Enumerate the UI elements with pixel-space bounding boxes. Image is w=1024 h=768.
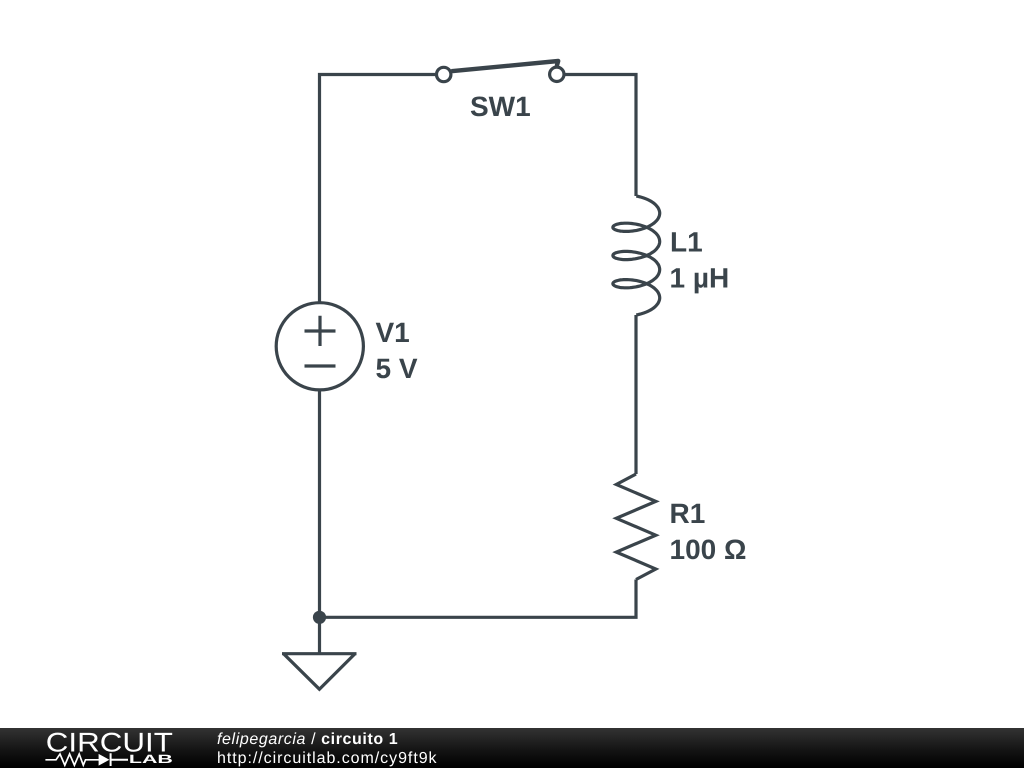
voltage source V1 circle <box>276 303 363 390</box>
wire: V1 bottom lead down to ground junction <box>318 390 321 617</box>
wire: top-left corner (V1 top lead up and across to SW1 left terminal) <box>320 75 436 303</box>
switch SW1 left terminal circle <box>437 67 451 81</box>
logo resistor zigzag <box>45 753 128 766</box>
svg-text:R1: R1 <box>670 498 706 529</box>
resistor R1 zigzag <box>616 474 656 580</box>
wire: SW1 right terminal to top-right corner down to L1 <box>565 75 636 197</box>
svg-text:100 Ω: 100 Ω <box>670 534 747 565</box>
inductor L1 coil <box>613 196 660 315</box>
footer attribution text <box>217 731 438 768</box>
ground symbol <box>282 654 357 690</box>
svg-text:SW1: SW1 <box>470 91 531 122</box>
logo diode triangle <box>99 754 110 766</box>
svg-text:LAB: LAB <box>129 752 174 766</box>
V1 plus sign <box>305 316 336 346</box>
V1 minus sign <box>305 364 336 367</box>
svg-text:5 V: 5 V <box>376 353 418 384</box>
wire: junction down to ground symbol <box>318 617 321 653</box>
footer bar <box>0 728 1024 768</box>
switch SW1 lever <box>451 61 558 71</box>
svg-text:L1: L1 <box>670 227 703 258</box>
switch SW1 right terminal circle <box>550 67 564 81</box>
logo diode cathode bar and wire to LAB <box>111 753 128 766</box>
wire: R1 bottom to bottom-right corner and across to ground node <box>320 580 637 618</box>
wire: L1 bottom to R1 top <box>634 315 637 474</box>
node: ground junction dot <box>313 611 326 624</box>
svg-text:V1: V1 <box>376 317 410 348</box>
svg-text:1 µH: 1 µH <box>670 263 730 294</box>
